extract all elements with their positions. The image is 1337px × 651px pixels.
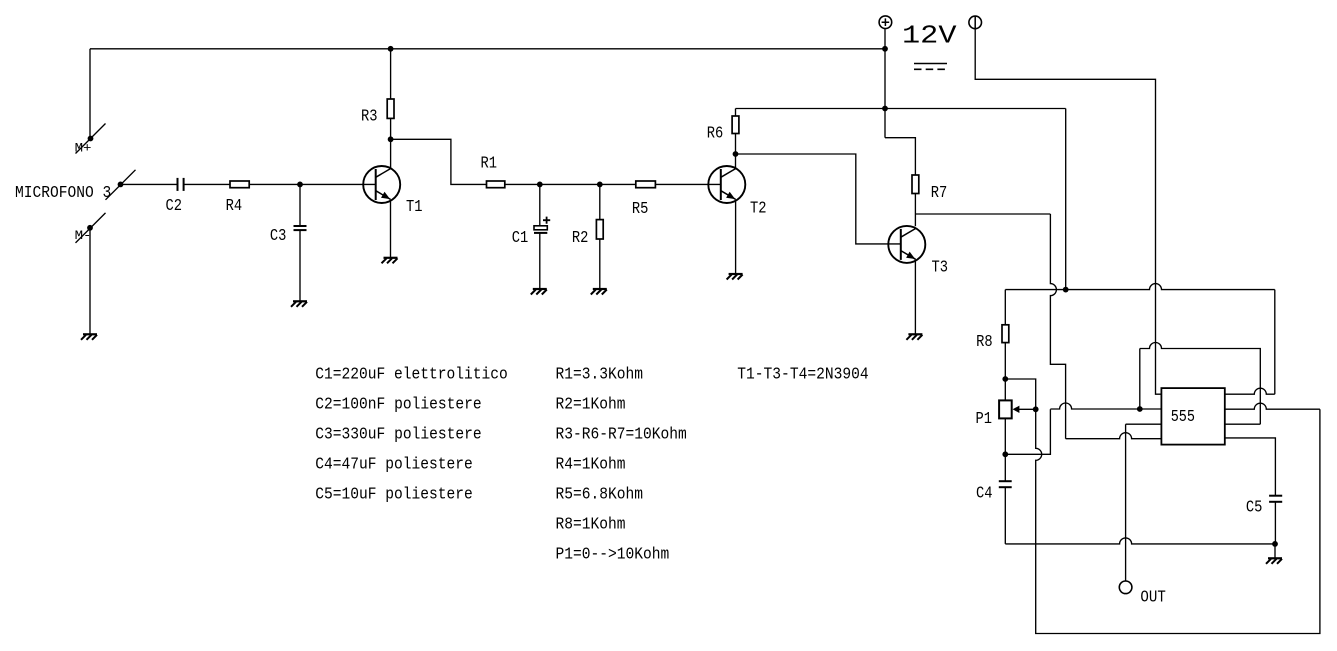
- svg-text:C1: C1: [512, 229, 529, 248]
- svg-text:R8=1Kohm: R8=1Kohm: [556, 516, 626, 535]
- svg-text:C3=330uF poliestere: C3=330uF poliestere: [315, 426, 481, 445]
- svg-text:R6: R6: [707, 125, 724, 144]
- svg-text:R3: R3: [361, 107, 378, 126]
- svg-text:T3: T3: [932, 259, 949, 278]
- svg-text:12V: 12V: [902, 20, 957, 50]
- svg-text:T1-T3-T4=2N3904: T1-T3-T4=2N3904: [737, 366, 868, 385]
- svg-text:C4: C4: [976, 485, 993, 504]
- svg-text:M+: M+: [75, 141, 92, 156]
- svg-text:R5: R5: [632, 200, 649, 219]
- svg-text:R8: R8: [976, 333, 993, 352]
- svg-text:R1=3.3Kohm: R1=3.3Kohm: [556, 366, 644, 385]
- svg-text:R4=1Kohm: R4=1Kohm: [556, 456, 626, 475]
- svg-text:M-: M-: [75, 228, 92, 243]
- svg-text:C4=47uF poliestere: C4=47uF poliestere: [315, 456, 473, 475]
- svg-text:C5=10uF poliestere: C5=10uF poliestere: [315, 486, 473, 505]
- svg-text:C3: C3: [270, 227, 287, 246]
- svg-text:MICROFONO 3: MICROFONO 3: [15, 184, 111, 203]
- svg-text:555: 555: [1171, 408, 1195, 427]
- svg-text:R2=1Kohm: R2=1Kohm: [556, 396, 626, 415]
- svg-text:C1=220uF elettrolitico: C1=220uF elettrolitico: [315, 366, 508, 385]
- svg-text:R1: R1: [481, 154, 498, 173]
- svg-text:T2: T2: [750, 200, 767, 219]
- svg-text:R5=6.8Kohm: R5=6.8Kohm: [556, 486, 644, 505]
- svg-text:C2: C2: [166, 197, 183, 216]
- svg-text:P1: P1: [976, 410, 993, 429]
- svg-text:R4: R4: [226, 197, 243, 216]
- svg-text:T1: T1: [406, 198, 423, 217]
- svg-text:P1=0-->10Kohm: P1=0-->10Kohm: [556, 546, 670, 565]
- svg-text:R3-R6-R7=10Kohm: R3-R6-R7=10Kohm: [556, 426, 687, 445]
- svg-text:C2=100nF poliestere: C2=100nF poliestere: [315, 396, 481, 415]
- svg-text:OUT: OUT: [1140, 589, 1165, 608]
- svg-text:C5: C5: [1246, 498, 1263, 517]
- svg-text:R2: R2: [572, 229, 589, 248]
- svg-text:R7: R7: [931, 184, 948, 203]
